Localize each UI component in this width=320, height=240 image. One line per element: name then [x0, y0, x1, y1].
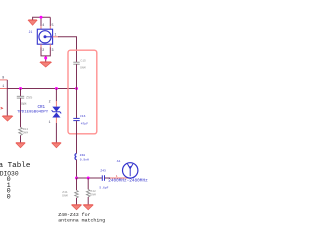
net flag fragment [1, 107, 3, 109]
svg-text:2: 2 [42, 49, 44, 53]
junction node main line [75, 87, 78, 90]
wire joining J1 pins 2,3 to ground arrow [41, 47, 50, 61]
junction node at Z55 branch [19, 87, 22, 90]
svg-text:antenna matching: antenna matching [58, 218, 105, 224]
svg-text:DNM: DNM [62, 195, 68, 198]
IC pin 9 stub (left edge) [0, 77, 7, 81]
svg-text:5.6pF: 5.6pF [99, 186, 108, 189]
J1 pin 3 [50, 44, 53, 53]
wire down to capacitor Z55 [20, 89, 22, 97]
resistor Z04 DNM [19, 127, 29, 135]
wire [87, 197, 89, 205]
wire [76, 160, 78, 178]
svg-text:1: 1 [49, 120, 51, 124]
table header DIO30 [0, 170, 19, 177]
capacitor C15 DNM [73, 60, 86, 70]
wire J1 pin1 to main RF line [58, 37, 77, 62]
svg-text:A1: A1 [117, 160, 121, 163]
wire [105, 177, 111, 179]
svg-text:Z43: Z43 [100, 170, 106, 173]
antenna table title [0, 162, 31, 170]
J1 pin 5 [50, 24, 53, 29]
junction node antenna line [75, 177, 78, 180]
svg-text:CR1: CR1 [38, 106, 46, 110]
J1 pin 2 [41, 44, 44, 53]
wire [76, 198, 78, 205]
svg-text:0: 0 [7, 194, 11, 202]
wire from power arrow to J1 pins 4,5 [33, 17, 51, 26]
power arrow under Z41 [72, 205, 82, 210]
J1 pin 4 [41, 24, 44, 29]
junction node at CR1 branch [55, 87, 58, 90]
antenna A1 2400MHz-2480MHz [108, 160, 148, 184]
power arrow under Z04 [16, 143, 25, 148]
svg-text:C15: C15 [80, 60, 86, 63]
svg-text:Z40: Z40 [80, 154, 86, 157]
inductor Z40 0.9nH [75, 154, 89, 162]
svg-text:3: 3 [52, 49, 54, 53]
wire down to CR1 [55, 89, 57, 102]
svg-text:Z55: Z55 [26, 96, 32, 100]
junction dot [44, 57, 47, 60]
antenna pin 1 stub [110, 175, 128, 178]
svg-text:TPD1E05B04DPY: TPD1E05B04DPY [17, 111, 49, 115]
J1 pin 1 [53, 34, 59, 38]
svg-text:Z40-Z43 for: Z40-Z43 for [58, 212, 90, 218]
power arrow VDD top-left [28, 20, 37, 25]
wire down branch Z41 [76, 178, 78, 190]
capacitor C16 47pF [73, 115, 88, 126]
svg-text:47pF: 47pF [81, 123, 88, 126]
wire [20, 98, 22, 127]
CR1 pin 2 [49, 100, 57, 107]
svg-text:1: 1 [116, 175, 118, 178]
matching network note box [68, 50, 97, 134]
svg-text:9: 9 [2, 77, 4, 81]
svg-text:a Table: a Table [0, 162, 31, 170]
power arrow under CR1 [52, 143, 61, 148]
wire [76, 121, 78, 154]
svg-text:2: 2 [49, 100, 51, 104]
note Z40-Z43 for antenna matching [58, 212, 105, 224]
resistor Z41 DNM [62, 190, 78, 198]
wire pin9 down to ground arrow [6, 80, 8, 116]
wire [55, 123, 57, 143]
wire down branch Z42 [87, 178, 89, 189]
svg-text:4: 4 [42, 24, 44, 28]
IC pin 1 stub (left edge) [0, 85, 7, 89]
svg-text:DNM: DNM [90, 193, 96, 196]
svg-text:DNM: DNM [23, 132, 29, 135]
RF connector J1 [29, 29, 53, 44]
power arrow under Z42 [83, 205, 93, 210]
resistor Z42 DNM [86, 189, 96, 197]
power arrow below J1 [40, 62, 51, 67]
svg-text:1: 1 [2, 85, 4, 89]
svg-text:1: 1 [55, 34, 57, 38]
capacitor Z55 DNM [17, 96, 33, 107]
TVS diode CR1 TPD1E05B04DPY [17, 106, 61, 118]
svg-text:DNM: DNM [80, 67, 86, 70]
capacitor Z43 5.6pF [99, 170, 108, 190]
wire to antenna [77, 177, 103, 179]
wire [76, 64, 78, 118]
svg-text:2400MHz-2480MHz: 2400MHz-2480MHz [108, 179, 148, 184]
svg-text:0.9nH: 0.9nH [80, 158, 89, 161]
svg-text:C16: C16 [80, 115, 86, 118]
junction dot [40, 16, 43, 19]
power arrow left [3, 116, 13, 121]
svg-text:J1: J1 [29, 30, 33, 34]
junction node Z42 branch [87, 177, 90, 180]
CR1 pin 1 [49, 118, 57, 124]
svg-text:5: 5 [52, 24, 54, 28]
wire [20, 135, 22, 142]
RF wire from pin 1 to matching network [7, 88, 76, 90]
